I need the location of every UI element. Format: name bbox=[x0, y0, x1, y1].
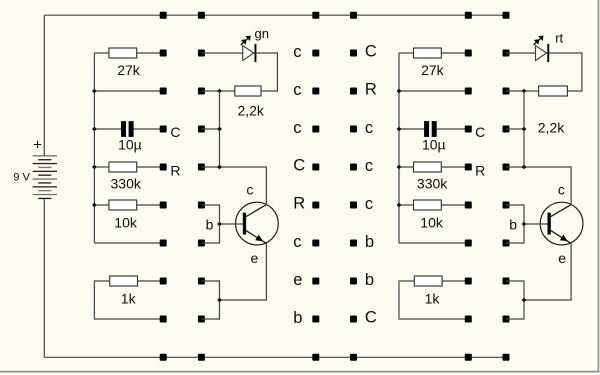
wire: bus end to contact row6 right bbox=[399, 242, 468, 244]
contact column middle-right bbox=[350, 50, 357, 323]
wire: bus right (rows 1-6) bbox=[398, 53, 400, 243]
contact column middle-left bbox=[312, 50, 319, 323]
wire: 27k to contact right bbox=[441, 52, 468, 54]
wire: base link rows 5-6 left bbox=[201, 205, 219, 243]
contacts on top rail bbox=[160, 12, 510, 19]
wire: capacitor to contact right bbox=[437, 128, 469, 130]
LED LED gn bbox=[241, 36, 257, 63]
wire: bus left (rows 1-6) bbox=[93, 53, 95, 243]
capacitor right 10u bbox=[424, 121, 437, 137]
wire: row4 to collector left bbox=[201, 167, 266, 205]
svg-text:1k: 1k bbox=[121, 291, 137, 307]
wire: LED cathode to 2,2k left bbox=[256, 53, 277, 91]
wire: emitter down right bbox=[524, 243, 571, 300]
svg-text:b: b bbox=[293, 309, 302, 327]
wire: 1k loop down to row8 left bbox=[94, 281, 163, 319]
resistor 330k left bbox=[109, 162, 137, 172]
capacitor left 10u bbox=[121, 121, 134, 137]
svg-text:1k: 1k bbox=[425, 291, 441, 307]
wire: 330k to contact left bbox=[137, 166, 164, 168]
wire: bus to contact row2 left bbox=[94, 90, 163, 92]
svg-text:e: e bbox=[558, 250, 566, 266]
svg-text:2,2k: 2,2k bbox=[538, 119, 565, 135]
wire: bus to capacitor left bbox=[94, 128, 121, 130]
wire: link rows 2-4 left bbox=[219, 91, 221, 167]
svg-text:R: R bbox=[475, 162, 485, 178]
svg-text:gn: gn bbox=[255, 26, 269, 41]
contact column left outer bbox=[198, 50, 205, 323]
svg-text:10µ: 10µ bbox=[118, 137, 142, 153]
wire: 1k to contact row7 right bbox=[442, 280, 468, 282]
wire: contact row1 to LED anode right bbox=[506, 52, 536, 54]
svg-text:b: b bbox=[365, 271, 374, 289]
svg-text:c: c bbox=[365, 195, 373, 213]
battery 9V bbox=[33, 155, 57, 199]
svg-text:330k: 330k bbox=[417, 175, 448, 191]
svg-text:e: e bbox=[251, 250, 259, 266]
resistor 330k right bbox=[414, 162, 442, 172]
wire: contact row3 to link right bbox=[506, 128, 524, 130]
resistor 1k left bbox=[110, 276, 138, 286]
wire: base feed left bbox=[220, 223, 243, 225]
svg-text:C: C bbox=[475, 124, 485, 140]
transistor T right (NPN) bbox=[540, 202, 583, 245]
svg-text:2,2k: 2,2k bbox=[237, 103, 264, 119]
svg-text:b: b bbox=[365, 233, 374, 251]
wire: bus to 330k right bbox=[399, 166, 414, 168]
svg-text:27k: 27k bbox=[117, 62, 141, 78]
svg-text:+: + bbox=[33, 136, 42, 153]
wire: contact row3 to link left bbox=[201, 128, 219, 130]
svg-text:c: c bbox=[365, 119, 373, 137]
svg-text:10k: 10k bbox=[420, 214, 444, 230]
svg-text:c: c bbox=[365, 157, 373, 175]
svg-text:b: b bbox=[509, 216, 517, 232]
wire: base feed right bbox=[524, 223, 548, 225]
wire: 10k to contact right bbox=[441, 204, 468, 206]
wire: bus to 27k left bbox=[94, 52, 109, 54]
wire: bus to 27k right bbox=[399, 52, 414, 54]
wire: row4 to collector right bbox=[506, 167, 571, 205]
svg-text:C: C bbox=[170, 124, 180, 140]
wire: 2,2k to contact row2 right bbox=[506, 90, 539, 92]
svg-text:R: R bbox=[365, 80, 377, 98]
transistor T left (NPN) bbox=[236, 202, 279, 245]
wire: 2,2k to contact row2 left bbox=[201, 90, 234, 92]
wire: 330k to contact right bbox=[441, 166, 468, 168]
LED LED rt bbox=[534, 36, 550, 63]
svg-text:c: c bbox=[246, 181, 253, 197]
svg-text:R: R bbox=[293, 194, 305, 212]
svg-text:10k: 10k bbox=[114, 214, 138, 230]
svg-text:e: e bbox=[293, 271, 302, 289]
contact column right inner bbox=[465, 50, 472, 323]
svg-text:c: c bbox=[558, 181, 565, 197]
wire: negative supply rail (bottom) bbox=[44, 356, 509, 358]
wire: 1k to contact row7 left bbox=[138, 280, 164, 282]
wire: LED cathode to 2,2k right bbox=[549, 53, 582, 91]
resistor 1k right bbox=[414, 276, 442, 286]
wire: 10k to contact left bbox=[137, 204, 164, 206]
wire: bus to 10k right bbox=[399, 204, 414, 206]
wire: 27k to contact left bbox=[137, 52, 164, 54]
wire: emitter down left bbox=[220, 243, 267, 300]
wire: contact row1 to LED anode left bbox=[201, 52, 242, 54]
svg-text:c: c bbox=[293, 81, 301, 99]
wire: base link rows 5-6 right bbox=[506, 205, 524, 243]
svg-text:C: C bbox=[365, 42, 377, 60]
wire: bus to capacitor right bbox=[399, 128, 424, 130]
svg-text:10µ: 10µ bbox=[422, 137, 446, 153]
contact column left inner bbox=[160, 50, 167, 323]
wire: capacitor to contact left bbox=[134, 128, 164, 130]
svg-text:c: c bbox=[293, 43, 301, 61]
resistor 10k left bbox=[109, 200, 137, 210]
svg-text:rt: rt bbox=[555, 31, 563, 46]
svg-text:C: C bbox=[293, 156, 305, 174]
resistor 10k right bbox=[414, 200, 442, 210]
svg-text:c: c bbox=[293, 119, 301, 137]
wire: link rows 2-4 right bbox=[523, 91, 525, 167]
resistor 2,2k left bbox=[235, 86, 261, 96]
svg-text:330k: 330k bbox=[111, 175, 142, 191]
resistor 27k left bbox=[109, 48, 137, 58]
wire: bus to contact row2 right bbox=[399, 90, 468, 92]
svg-text:b: b bbox=[206, 216, 214, 232]
wire: emitter link rows 7-8 left bbox=[201, 281, 219, 319]
wire: battery - down to bottom rail bbox=[43, 199, 45, 357]
wire: bus end to contact row6 left bbox=[94, 242, 163, 244]
svg-text:27k: 27k bbox=[421, 62, 445, 78]
wire: bus to 10k left bbox=[94, 204, 109, 206]
resistor 2,2k right bbox=[539, 86, 568, 96]
wire: positive supply rail (top) bbox=[44, 14, 509, 16]
wire: emitter link rows 7-8 right bbox=[506, 281, 524, 319]
wire: 1k loop down to row8 right bbox=[399, 281, 468, 319]
svg-text:9 V: 9 V bbox=[13, 172, 30, 184]
wire: bus to 330k left bbox=[94, 166, 109, 168]
resistor 27k right bbox=[414, 48, 442, 58]
svg-text:C: C bbox=[365, 308, 377, 326]
wire: left supply from battery + to top rail bbox=[43, 15, 45, 156]
svg-text:c: c bbox=[293, 233, 301, 251]
contacts on bottom rail bbox=[160, 354, 510, 361]
svg-text:R: R bbox=[170, 162, 180, 178]
contact column right outer bbox=[503, 50, 510, 323]
